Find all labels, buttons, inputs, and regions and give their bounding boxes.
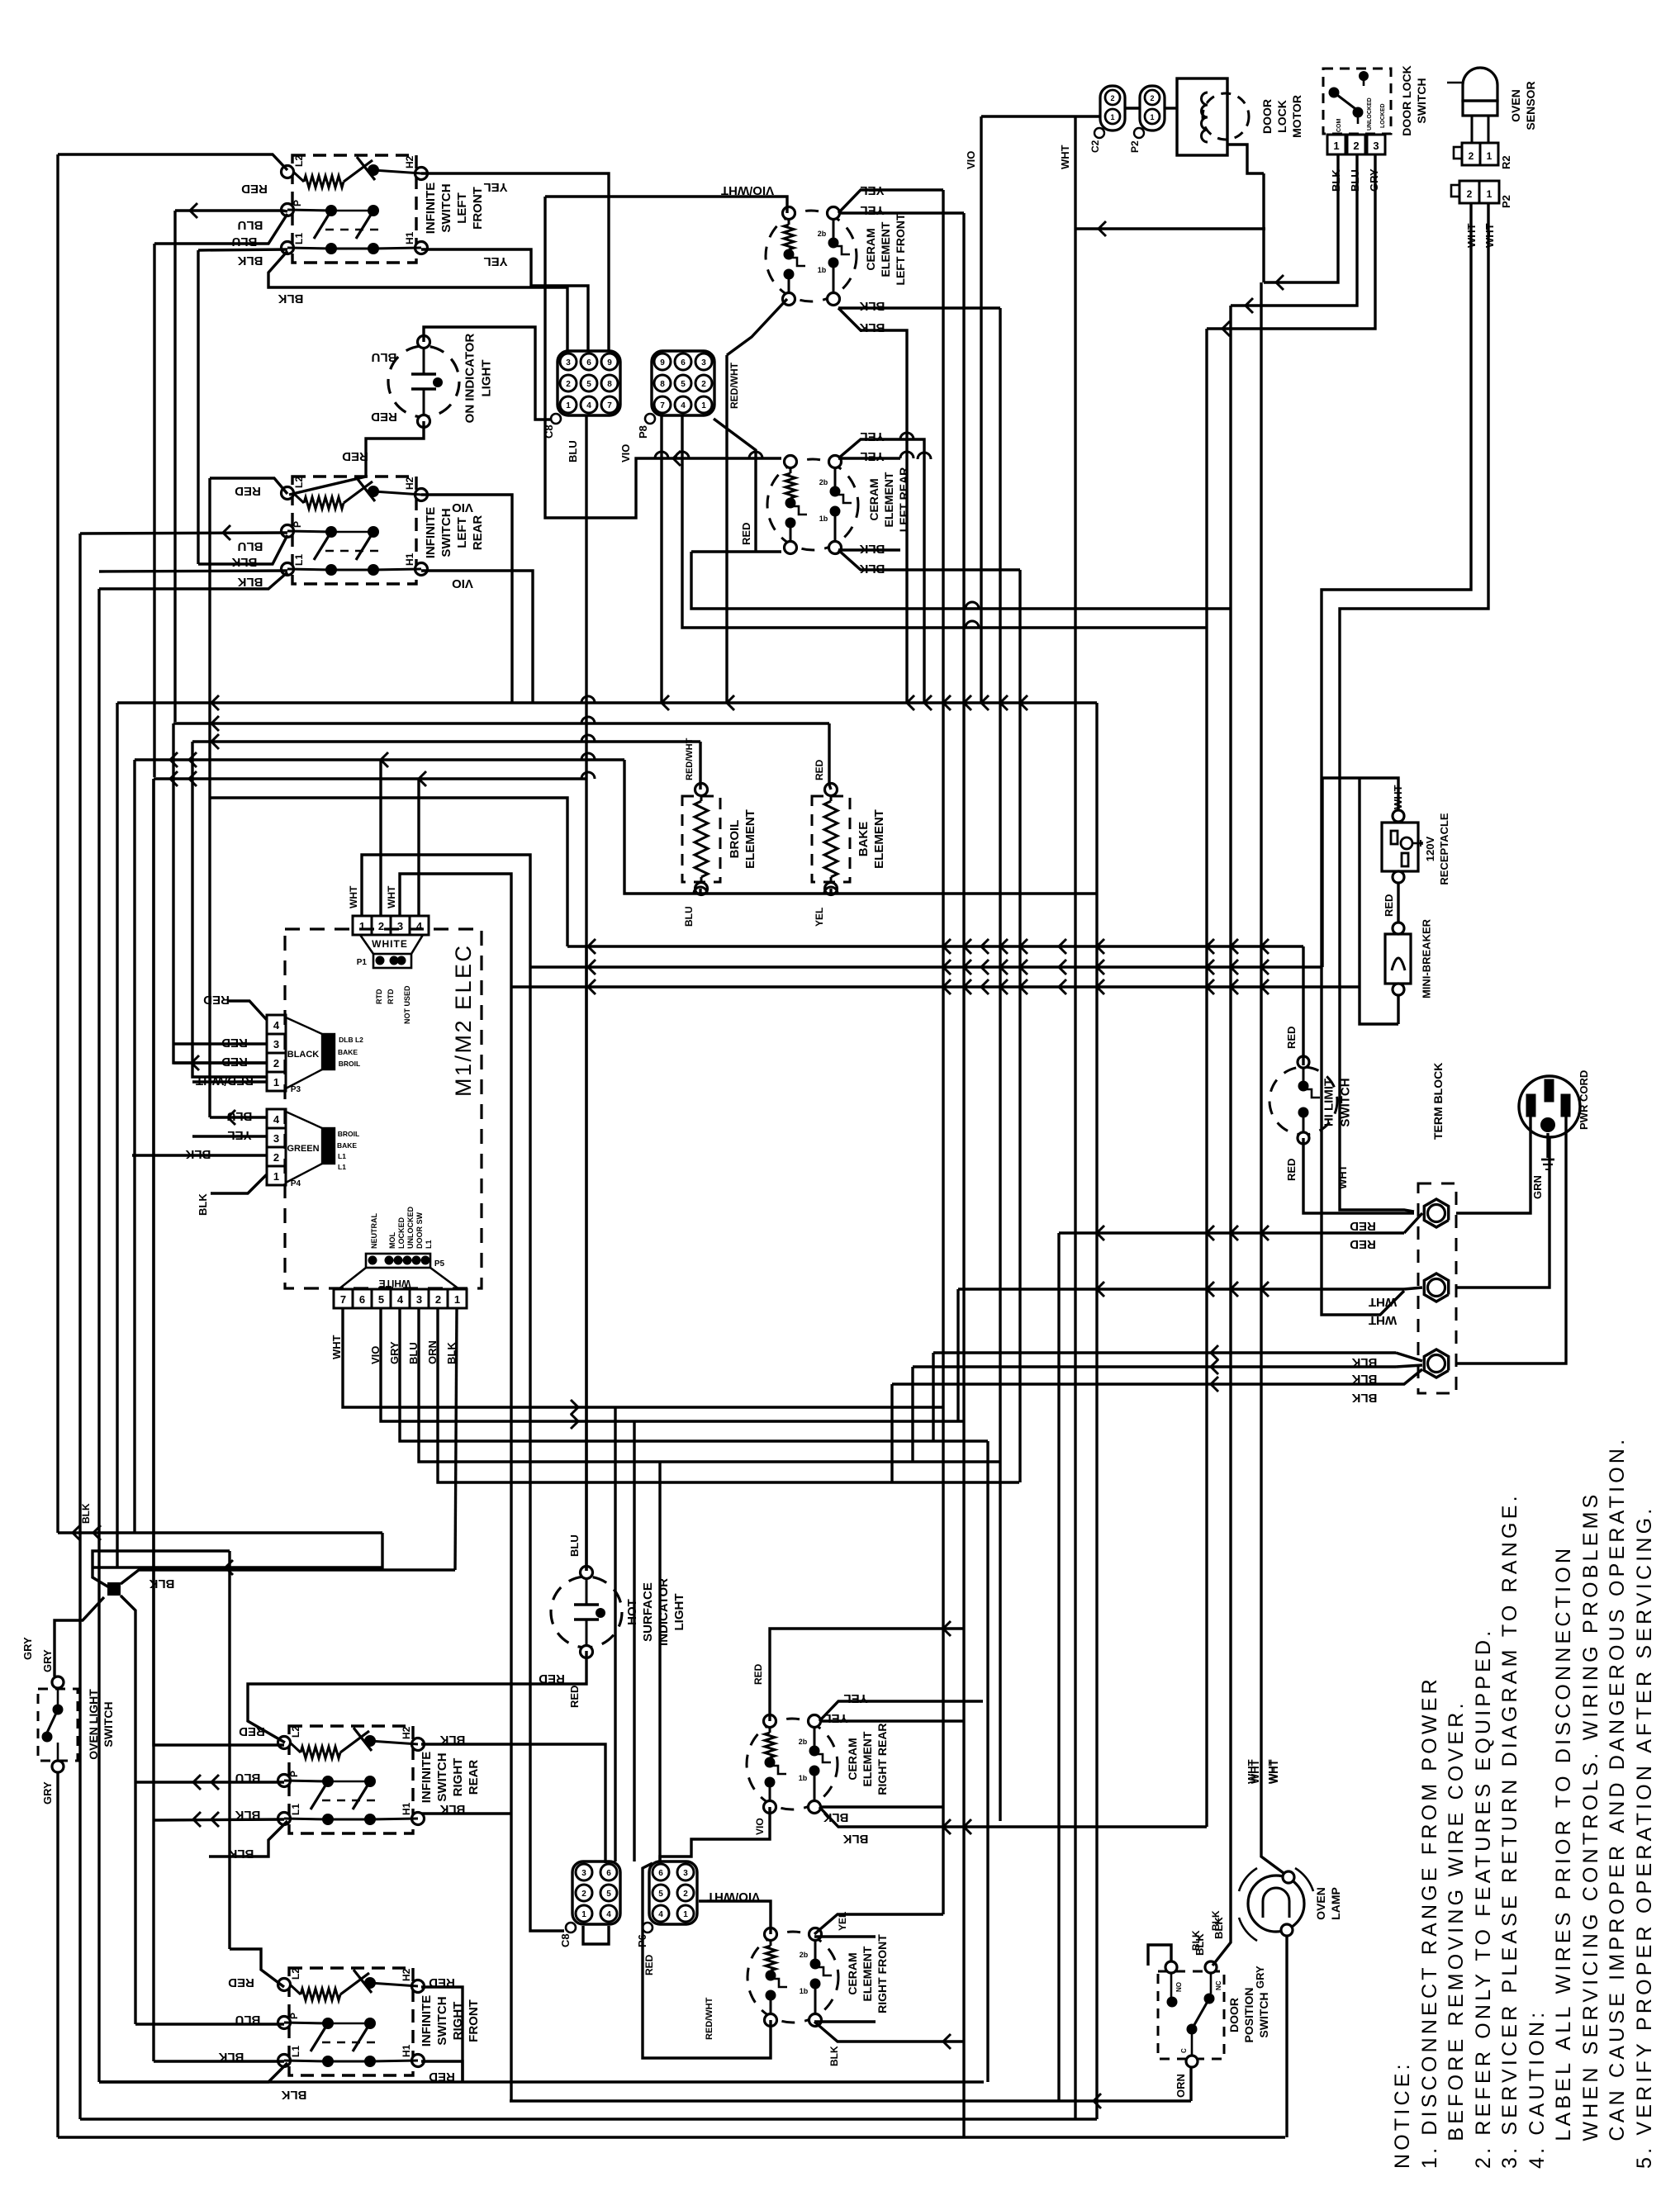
svg-text:WHT: WHT [1059, 145, 1071, 169]
svg-text:BLK: BLK [278, 292, 303, 306]
svg-text:5: 5 [378, 1293, 384, 1306]
svg-text:VIO/WHT: VIO/WHT [721, 183, 774, 197]
svg-text:C8: C8 [559, 1933, 572, 1947]
svg-text:1: 1 [359, 920, 365, 932]
svg-text:LOCK: LOCK [1275, 100, 1288, 133]
svg-text:P: P [292, 521, 303, 528]
svg-text:BLK: BLK [859, 562, 885, 576]
svg-text:L1: L1 [338, 1152, 346, 1160]
svg-text:P3: P3 [291, 1085, 301, 1094]
svg-text:BLK: BLK [828, 2046, 840, 2066]
svg-text:C2: C2 [1089, 140, 1101, 153]
svg-text:DLB L2: DLB L2 [339, 1036, 363, 1044]
svg-text:4: 4 [606, 1910, 611, 1919]
svg-text:WHEN SERVICING CONTROLS. WIRIN: WHEN SERVICING CONTROLS. WIRING PROBLEMS [1579, 1491, 1602, 2170]
svg-text:8: 8 [607, 380, 612, 389]
svg-text:1: 1 [273, 1170, 279, 1183]
svg-text:RIGHT REAR: RIGHT REAR [876, 1723, 889, 1795]
svg-text:OVEN: OVEN [1509, 89, 1522, 122]
svg-text:1: 1 [701, 401, 706, 410]
svg-text:BLK: BLK [281, 2088, 306, 2102]
svg-text:WHT: WHT [1246, 1759, 1258, 1784]
svg-text:DOOR: DOOR [1227, 1998, 1241, 2032]
svg-text:2: 2 [1110, 94, 1114, 102]
svg-text:ELEMENT: ELEMENT [879, 221, 892, 277]
svg-text:1b: 1b [818, 266, 827, 274]
svg-text:2. REFER ONLY TO FEATURES EQUI: 2. REFER ONLY TO FEATURES EQUIPPED. [1472, 1628, 1495, 2169]
svg-text:6: 6 [359, 1293, 365, 1306]
svg-text:2: 2 [273, 1057, 279, 1069]
svg-text:BLU: BLU [238, 218, 263, 232]
svg-text:LOCKED: LOCKED [397, 1217, 406, 1250]
svg-text:BLK: BLK [859, 320, 885, 334]
svg-text:5: 5 [658, 1890, 663, 1899]
svg-text:RED: RED [740, 523, 752, 545]
svg-text:NOTICE:: NOTICE: [1391, 2061, 1414, 2169]
svg-text:MOL: MOL [388, 1232, 396, 1249]
svg-text:VIO: VIO [754, 1818, 766, 1835]
svg-text:2: 2 [1469, 150, 1474, 162]
svg-text:DOOR LOCK: DOOR LOCK [1400, 65, 1413, 136]
svg-text:2: 2 [273, 1151, 279, 1164]
svg-text:9: 9 [660, 358, 665, 368]
svg-text:BLK: BLK [1190, 1930, 1202, 1951]
svg-text:COM: COM [1336, 119, 1342, 133]
svg-text:BAKE: BAKE [337, 1141, 357, 1150]
svg-text:3: 3 [273, 1038, 279, 1050]
svg-text:BLU: BLU [238, 539, 263, 553]
svg-text:CERAM: CERAM [864, 228, 877, 270]
svg-text:C: C [1180, 2048, 1188, 2053]
svg-text:2: 2 [683, 1890, 688, 1899]
svg-text:8: 8 [660, 380, 665, 389]
svg-text:YEL: YEL [483, 254, 507, 268]
svg-text:TERM BLOCK: TERM BLOCK [1431, 1063, 1445, 1140]
svg-text:BEFORE REMOVING WIRE COVER.: BEFORE REMOVING WIRE COVER. [1445, 1700, 1468, 2169]
svg-text:YEL: YEL [837, 1912, 848, 1931]
svg-text:CERAM: CERAM [846, 1738, 859, 1780]
svg-text:RED/WHT: RED/WHT [728, 362, 740, 409]
svg-text:2: 2 [581, 1890, 586, 1899]
svg-text:4. CAUTION:: 4. CAUTION: [1526, 2009, 1549, 2169]
svg-text:VIO: VIO [619, 444, 632, 462]
svg-text:3: 3 [273, 1132, 279, 1145]
svg-text:LEFT: LEFT [455, 192, 469, 224]
svg-text:7: 7 [660, 401, 665, 410]
svg-text:BROIL: BROIL [728, 820, 742, 859]
svg-text:P1: P1 [357, 958, 368, 967]
svg-text:R2: R2 [1500, 155, 1512, 169]
svg-text:WHITE: WHITE [379, 1278, 411, 1289]
svg-text:BLU: BLU [568, 1534, 581, 1557]
svg-text:SWITCH: SWITCH [435, 1752, 449, 1801]
svg-text:DOOR SW: DOOR SW [415, 1212, 424, 1249]
svg-text:9: 9 [607, 358, 612, 368]
svg-text:LIGHT: LIGHT [672, 1594, 686, 1631]
svg-text:H1: H1 [404, 231, 415, 244]
svg-text:1b: 1b [819, 515, 828, 523]
svg-text:120V: 120V [1424, 836, 1436, 861]
svg-text:ON INDICATOR: ON INDICATOR [463, 334, 477, 424]
svg-text:4: 4 [658, 1910, 663, 1919]
svg-text:WHT: WHT [386, 885, 397, 908]
svg-text:P: P [288, 2013, 300, 2019]
svg-text:3: 3 [566, 358, 571, 368]
svg-text:BLU: BLU [683, 906, 695, 927]
svg-text:BLK: BLK [1351, 1391, 1377, 1405]
svg-text:NEUTRAL: NEUTRAL [370, 1213, 378, 1249]
svg-text:1: 1 [581, 1910, 586, 1919]
svg-text:ELEMENT: ELEMENT [743, 809, 757, 869]
svg-text:2: 2 [566, 380, 571, 389]
svg-text:2: 2 [701, 380, 706, 389]
svg-text:UNLOCKED: UNLOCKED [1367, 97, 1373, 130]
svg-text:3: 3 [581, 1869, 586, 1878]
svg-text:RED: RED [1285, 1027, 1298, 1049]
svg-text:RED: RED [371, 410, 397, 424]
svg-text:RED: RED [429, 2070, 455, 2084]
svg-text:1: 1 [1487, 150, 1493, 162]
svg-text:L1: L1 [290, 1804, 301, 1815]
svg-text:RED: RED [643, 1954, 655, 1975]
svg-text:5: 5 [586, 380, 591, 389]
svg-text:1: 1 [566, 401, 571, 410]
svg-text:H2: H2 [404, 477, 415, 490]
svg-text:RED: RED [1285, 1159, 1298, 1181]
svg-text:BLK: BLK [228, 1847, 254, 1861]
svg-text:3: 3 [397, 920, 403, 932]
svg-text:BAKE: BAKE [338, 1048, 358, 1056]
svg-text:L1: L1 [293, 233, 305, 244]
svg-text:4: 4 [273, 1019, 280, 1031]
svg-text:SURFACE: SURFACE [641, 1582, 655, 1642]
svg-text:ORN: ORN [1175, 2074, 1187, 2098]
svg-text:RED: RED [239, 1724, 265, 1738]
svg-text:LIGHT: LIGHT [479, 360, 493, 397]
svg-text:2: 2 [1353, 140, 1359, 152]
svg-text:GREEN: GREEN [287, 1144, 319, 1154]
svg-text:3: 3 [1373, 140, 1379, 152]
svg-text:RED/WHT: RED/WHT [196, 1074, 254, 1088]
svg-text:BLK: BLK [842, 1832, 868, 1846]
svg-text:YEL: YEL [483, 180, 507, 194]
svg-text:BLK: BLK [823, 1810, 848, 1824]
svg-text:4: 4 [586, 401, 591, 410]
svg-text:WHT: WHT [348, 885, 359, 908]
svg-text:GRY: GRY [41, 1649, 54, 1672]
svg-text:BLK: BLK [235, 1808, 260, 1822]
svg-text:2: 2 [435, 1293, 441, 1306]
svg-text:4: 4 [681, 401, 686, 410]
svg-text:RED: RED [221, 1055, 248, 1069]
svg-text:P: P [292, 200, 303, 206]
svg-text:7: 7 [607, 401, 612, 410]
svg-text:2b: 2b [819, 478, 828, 486]
svg-text:YEL: YEL [860, 429, 884, 443]
svg-text:H2: H2 [401, 1726, 412, 1739]
svg-text:SWITCH: SWITCH [435, 1996, 449, 2045]
svg-text:H1: H1 [401, 1802, 412, 1815]
svg-text:1b: 1b [799, 1774, 808, 1782]
svg-text:YEL: YEL [227, 1128, 251, 1142]
svg-text:GRY: GRY [41, 1781, 54, 1804]
svg-text:RED: RED [1383, 894, 1395, 917]
svg-text:REAR: REAR [471, 515, 485, 551]
svg-text:INFINITE: INFINITE [424, 507, 438, 559]
svg-text:1b: 1b [800, 1987, 809, 1995]
svg-text:RTD: RTD [375, 989, 383, 1004]
svg-text:CERAM: CERAM [867, 478, 880, 520]
svg-text:BLK: BLK [859, 299, 885, 313]
svg-text:HI LIMIT: HI LIMIT [1322, 1079, 1336, 1126]
svg-text:BLU: BLU [235, 2013, 261, 2027]
svg-text:1: 1 [454, 1293, 460, 1306]
svg-text:INFINITE: INFINITE [420, 1752, 434, 1804]
svg-text:CAN CAUSE IMPROPER AND DANGERO: CAN CAUSE IMPROPER AND DANGEROUS OPERATI… [1606, 1436, 1629, 2169]
svg-text:H2: H2 [404, 155, 415, 168]
svg-text:H1: H1 [404, 552, 415, 566]
svg-text:BLK: BLK [80, 1503, 92, 1524]
svg-text:RIGHT: RIGHT [451, 1758, 465, 1797]
svg-text:4: 4 [416, 920, 423, 932]
svg-text:3. SERVICER PLEASE RETURN DIAG: 3. SERVICER PLEASE RETURN DIAGRAM TO RAN… [1498, 1492, 1521, 2169]
svg-text:L2: L2 [293, 155, 305, 167]
svg-text:RED: RED [752, 1663, 764, 1685]
svg-text:BLK: BLK [859, 542, 885, 556]
svg-text:NC: NC [1215, 1980, 1222, 1990]
svg-text:RED: RED [228, 1975, 254, 1989]
svg-text:BLU: BLU [235, 1771, 261, 1785]
svg-text:BLK: BLK [439, 1802, 465, 1816]
svg-text:OVEN: OVEN [1314, 1887, 1327, 1920]
svg-text:BLK: BLK [218, 2050, 244, 2064]
svg-text:RED: RED [342, 449, 368, 463]
svg-text:BLK: BLK [1351, 1372, 1377, 1386]
svg-text:ELEMENT: ELEMENT [872, 809, 886, 869]
svg-text:5: 5 [606, 1890, 611, 1899]
svg-text:P2: P2 [1129, 140, 1141, 153]
svg-text:BLK: BLK [439, 1733, 465, 1747]
svg-text:BLK: BLK [197, 1193, 209, 1216]
svg-text:VIO: VIO [452, 576, 473, 590]
svg-text:6: 6 [586, 358, 591, 368]
svg-text:1: 1 [1150, 113, 1154, 121]
svg-text:WHT: WHT [1266, 1759, 1279, 1784]
svg-text:RIGHT FRONT: RIGHT FRONT [876, 1934, 889, 2013]
svg-text:RED: RED [539, 1672, 565, 1686]
svg-text:BROIL: BROIL [339, 1060, 360, 1068]
svg-text:L1: L1 [425, 1240, 433, 1249]
svg-text:MINI-BREAKER: MINI-BREAKER [1421, 918, 1433, 998]
svg-text:1: 1 [1333, 140, 1339, 152]
svg-text:LAMP: LAMP [1329, 1887, 1342, 1920]
svg-text:RECEPTACLE: RECEPTACLE [1438, 813, 1450, 884]
svg-text:LEFT: LEFT [455, 517, 469, 548]
svg-text:P5: P5 [434, 1259, 445, 1269]
svg-text:2b: 2b [800, 1951, 809, 1959]
svg-text:BLK: BLK [1210, 1910, 1222, 1931]
svg-text:1: 1 [1487, 188, 1493, 200]
svg-text:M1/M2 ELEC: M1/M2 ELEC [451, 943, 476, 1097]
svg-text:SENSOR: SENSOR [1524, 81, 1537, 130]
svg-text:5. VERIFY PROPER OPERATION AFT: 5. VERIFY PROPER OPERATION AFTER SERVICI… [1633, 1506, 1656, 2169]
svg-text:YEL: YEL [860, 449, 884, 463]
svg-text:2: 2 [1467, 188, 1473, 200]
svg-text:L2: L2 [290, 1968, 301, 1980]
svg-text:BLACK: BLACK [287, 1050, 320, 1060]
svg-text:H2: H2 [401, 1968, 412, 1981]
svg-text:2b: 2b [818, 230, 827, 238]
svg-text:SWITCH: SWITCH [439, 508, 453, 557]
svg-text:7: 7 [340, 1293, 346, 1306]
svg-text:BLK: BLK [1330, 169, 1342, 192]
svg-text:RED: RED [814, 759, 825, 780]
svg-text:P8: P8 [637, 425, 649, 439]
svg-text:BLK: BLK [231, 555, 257, 569]
svg-text:BROIL: BROIL [338, 1130, 359, 1138]
svg-text:BLU: BLU [1349, 169, 1361, 192]
svg-text:P4: P4 [291, 1179, 301, 1188]
svg-text:BLK: BLK [185, 1147, 211, 1161]
svg-text:ELEMENT: ELEMENT [861, 1731, 874, 1786]
svg-text:YEL: YEL [814, 908, 825, 927]
svg-text:P: P [288, 1771, 300, 1777]
svg-text:3: 3 [701, 358, 706, 368]
svg-text:L2: L2 [290, 1726, 301, 1738]
svg-text:BLU: BLU [372, 350, 397, 364]
svg-text:BLK: BLK [1351, 1355, 1377, 1369]
svg-text:LEFT FRONT: LEFT FRONT [894, 213, 907, 286]
svg-text:RED/WHT: RED/WHT [705, 1997, 714, 2040]
svg-text:BLK: BLK [237, 575, 263, 589]
svg-text:4: 4 [273, 1113, 280, 1126]
svg-text:NO: NO [1175, 1982, 1183, 1992]
svg-text:VIO: VIO [452, 500, 473, 515]
svg-text:VIO: VIO [965, 151, 977, 169]
svg-text:RED: RED [235, 484, 261, 498]
svg-text:4: 4 [397, 1293, 404, 1306]
svg-text:SWITCH: SWITCH [439, 183, 453, 232]
svg-text:BLU: BLU [227, 1109, 253, 1123]
svg-text:BLU: BLU [232, 235, 258, 249]
svg-text:P2: P2 [1500, 195, 1512, 208]
svg-text:DOOR: DOOR [1260, 99, 1274, 134]
svg-text:BAKE: BAKE [857, 822, 871, 857]
svg-text:CERAM: CERAM [846, 1952, 859, 1994]
svg-text:FRONT: FRONT [471, 187, 485, 230]
svg-text:INFINITE: INFINITE [420, 1995, 434, 2047]
svg-text:1: 1 [273, 1076, 279, 1088]
svg-text:LABEL ALL WIRES PRIOR TO DISCO: LABEL ALL WIRES PRIOR TO DISCONNECTION [1552, 1545, 1575, 2169]
svg-text:FRONT: FRONT [467, 1999, 481, 2042]
svg-text:RED: RED [203, 993, 230, 1007]
svg-text:PWR CORD: PWR CORD [1578, 1070, 1590, 1130]
svg-text:HOT: HOT [625, 1599, 639, 1625]
svg-text:GRN: GRN [1531, 1175, 1544, 1199]
svg-text:RED: RED [1350, 1219, 1376, 1233]
svg-text:MOTOR: MOTOR [1290, 95, 1303, 138]
svg-text:ELEMENT: ELEMENT [861, 1946, 874, 2001]
svg-text:RED: RED [221, 1036, 248, 1050]
svg-text:5: 5 [681, 380, 686, 389]
svg-text:YEL: YEL [823, 1711, 847, 1725]
svg-text:3: 3 [416, 1293, 422, 1306]
svg-text:2: 2 [378, 920, 384, 932]
svg-text:GRY: GRY [21, 1637, 34, 1660]
svg-text:WHITE: WHITE [372, 938, 408, 950]
svg-text:H1: H1 [401, 2044, 412, 2057]
svg-text:RTD: RTD [387, 989, 395, 1004]
svg-text:RED: RED [429, 1975, 455, 1989]
svg-text:VIO/WHT: VIO/WHT [707, 1890, 760, 1904]
svg-text:RED: RED [241, 182, 268, 196]
svg-text:1: 1 [1110, 113, 1114, 121]
svg-text:SWITCH: SWITCH [1415, 78, 1428, 123]
svg-text:1: 1 [683, 1910, 688, 1919]
svg-text:ELEMENT: ELEMENT [882, 472, 895, 527]
svg-text:NOT USED: NOT USED [403, 985, 411, 1024]
svg-text:WHT: WHT [1336, 1164, 1349, 1189]
svg-text:L2: L2 [293, 477, 305, 488]
svg-text:YEL: YEL [843, 1691, 867, 1705]
svg-text:LOCKED: LOCKED [1380, 103, 1386, 128]
svg-text:RED/WHT: RED/WHT [685, 737, 695, 780]
svg-text:6: 6 [606, 1869, 611, 1878]
svg-text:REAR: REAR [467, 1760, 481, 1795]
svg-text:L1: L1 [338, 1163, 346, 1171]
svg-text:INFINITE: INFINITE [424, 183, 438, 235]
svg-text:2b: 2b [799, 1738, 808, 1746]
svg-text:WHT: WHT [330, 1335, 343, 1359]
svg-text:3: 3 [683, 1869, 688, 1878]
svg-text:2: 2 [1150, 94, 1154, 102]
svg-text:L1: L1 [293, 554, 305, 566]
svg-text:6: 6 [681, 358, 686, 368]
svg-text:L1: L1 [290, 2046, 301, 2057]
svg-text:6: 6 [658, 1869, 663, 1878]
svg-text:POSITION: POSITION [1242, 1988, 1255, 2043]
svg-text:SWITCH: SWITCH [1257, 1992, 1270, 2037]
svg-text:GRY: GRY [1254, 1966, 1266, 1989]
svg-text:UNLOCKED: UNLOCKED [406, 1207, 415, 1249]
svg-text:YEL: YEL [860, 183, 884, 197]
svg-text:BLK: BLK [237, 254, 263, 268]
svg-text:BLU: BLU [567, 440, 579, 462]
svg-text:YEL: YEL [860, 203, 884, 217]
svg-text:RED: RED [1350, 1237, 1376, 1251]
svg-text:1. DISCONNECT RANGE FROM POWER: 1. DISCONNECT RANGE FROM POWER [1418, 1676, 1441, 2169]
svg-text:RED: RED [568, 1686, 581, 1708]
svg-text:SWITCH: SWITCH [102, 1701, 115, 1747]
